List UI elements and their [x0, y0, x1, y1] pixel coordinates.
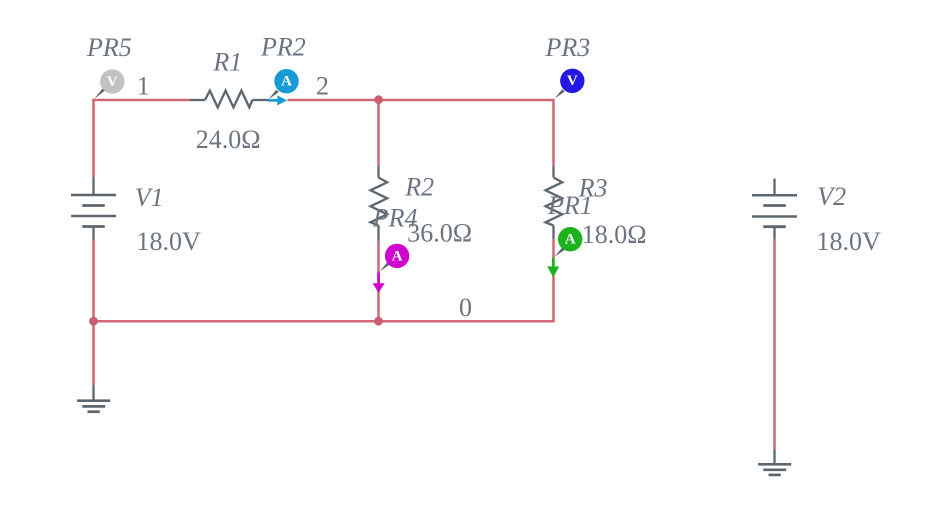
svg-text:24.0Ω: 24.0Ω [196, 125, 261, 154]
probe PR2 (current, azure) with arrow [268, 69, 299, 105]
probe PR4 (current, magenta) with arrow [373, 244, 410, 293]
resistor R3 [546, 165, 563, 239]
svg-text:A: A [281, 74, 292, 90]
svg-text:R2: R2 [404, 173, 434, 202]
wire: bottom rail node 0 [94, 320, 554, 323]
svg-text:V1: V1 [135, 183, 164, 212]
probe PR5 (voltage, gray) [94, 69, 124, 99]
svg-text:PR5: PR5 [86, 33, 132, 62]
wire: left vertical from bottom rail to ground [92, 321, 95, 385]
wire: mid vertical lower from R2 to bottom rail (node 0) [377, 241, 380, 321]
svg-text:V2: V2 [817, 182, 846, 211]
svg-text:PR2: PR2 [260, 33, 306, 62]
junction dot node2 at mid top [374, 95, 383, 104]
ground (right, below V2) [758, 450, 791, 475]
svg-text:18.0Ω: 18.0Ω [582, 220, 647, 249]
junction dot bottom-left [89, 317, 98, 326]
svg-text:18.0V: 18.0V [137, 227, 202, 256]
svg-text:R1: R1 [212, 48, 242, 77]
resistor R2 [371, 166, 388, 241]
svg-text:0: 0 [459, 293, 472, 322]
svg-text:A: A [392, 248, 403, 264]
ground (left, below V1) [77, 385, 110, 412]
svg-text:PR4: PR4 [372, 204, 418, 233]
wire: right vertical lower from R3 to bottom rail (node 0) [552, 239, 555, 322]
svg-text:1: 1 [137, 71, 150, 100]
svg-text:18.0V: 18.0V [817, 227, 882, 256]
svg-text:V: V [567, 73, 578, 89]
junction dot bottom-mid [374, 317, 383, 326]
battery V2 [752, 179, 797, 240]
wire: right vertical upper (node2) into R3 [552, 99, 555, 165]
wire: left vertical from V1 to bottom rail [92, 240, 95, 322]
probe PR3 (voltage, blue) [555, 69, 585, 99]
wire: top horizontal node2 from PR2 arrow to right corner [288, 99, 554, 102]
wire: mid vertical upper (node2) into R2 [377, 100, 380, 166]
probe PR1 (current, green) with arrow [547, 227, 582, 277]
battery V1 [71, 177, 116, 240]
svg-text:2: 2 [316, 71, 329, 100]
svg-text:A: A [565, 232, 576, 248]
svg-text:V: V [107, 74, 118, 90]
svg-text:PR3: PR3 [545, 33, 591, 62]
wire: left vertical from node1 corner down to V1 [92, 99, 95, 177]
wire: V2 vertical from battery to ground [773, 239, 776, 450]
resistor R1 [189, 91, 268, 108]
wire: top horizontal node1 from corner to R1 [92, 99, 189, 102]
svg-text:PR1: PR1 [547, 191, 593, 220]
